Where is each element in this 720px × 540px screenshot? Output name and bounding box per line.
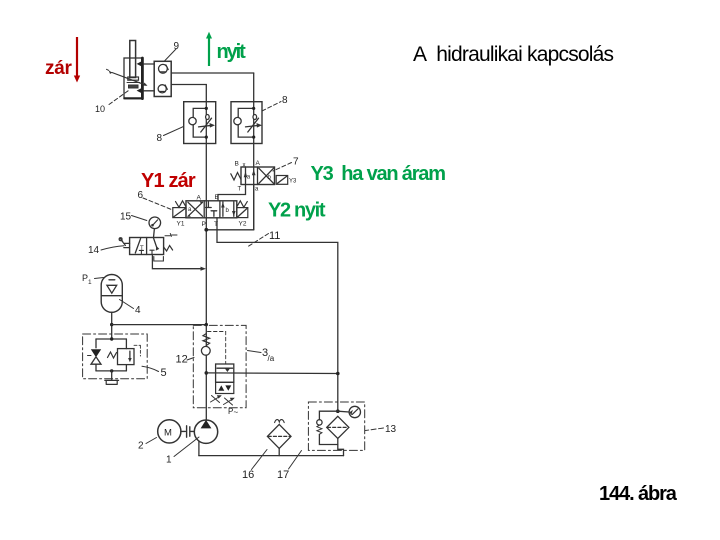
small figure numerals and port labels [82,41,397,481]
label 17 leader [289,451,302,470]
wire T return line 11 [217,218,338,411]
valve V14 right cell gauge path [154,238,158,249]
junction dot and drain wire [205,371,209,375]
wire block to right line (top port) [171,72,254,74]
svg-text:8: 8 [157,133,163,144]
valve V14 body [130,238,164,255]
label P1 leader [95,278,104,279]
gauge G15 [149,217,161,229]
cylinder C body [124,58,143,99]
gauge G15 stem [153,229,156,238]
svg-text:10: 10 [95,104,105,114]
valve U7 solenoid Y3 [276,176,288,185]
wire cylinder to block top [144,63,154,65]
relief valve spring [108,352,117,358]
check valve 12 ball [201,346,210,355]
label 8 right leader [262,102,281,112]
unit 13 dash-dot box [308,402,364,450]
svg-text:Y1 zár: Y1 zár [141,170,196,192]
relief unit 5 loop [96,338,126,340]
valve U7 (Y3) body [241,167,275,185]
filter 16 breather [275,420,285,423]
filter 16 diamond [267,424,291,448]
accumulator A4 stem [111,312,113,339]
wire left main line L1 [205,85,207,421]
relief unit 5 dash-dot box [83,334,148,379]
valve V14 left cell shutoff [135,239,140,254]
check valve in unit 5 [91,349,101,357]
unit 13 junction [336,409,340,413]
valve U6 spring left [176,201,186,208]
svg-text:16: 16 [242,469,254,481]
cylinder piston [128,77,139,80]
label 16 leader [252,450,268,470]
svg-text:Y1: Y1 [177,221,185,228]
flow control 8R drop [253,115,257,120]
bottom return line [199,455,344,457]
svg-text:14: 14 [88,245,100,256]
svg-text:P: P [202,221,206,228]
wire V14 to main line [152,255,202,269]
label 6 leader [143,198,172,210]
valve V14 left ports [124,243,130,247]
valve U6 middle cell closed symbols [206,202,212,208]
node dots 8R [252,107,255,110]
flow control 8R check circle [234,117,241,124]
unit 13 gauge [338,410,349,413]
svg-text:b: b [226,208,230,214]
svg-text:T: T [214,221,218,228]
wire accumulator to main [112,324,207,326]
pump P1 [194,420,217,443]
svg-text:T: T [238,187,242,193]
svg-text:T: T [140,246,144,252]
flow control valve 8 (left) box [184,102,216,144]
label 4 leader [120,300,134,309]
unit 13 filter diamond [327,416,349,438]
pilot dashed line 3/a [208,332,226,365]
valve V14 roller actuator [120,238,126,246]
wire right line L2 [253,73,255,230]
flow control 8L throttle arrow [199,125,213,127]
svg-text:A hidraulikai kapcsolás: A hidraulikai kapcsolás [413,43,614,66]
label 5 leader [142,366,159,371]
svg-text:Y2 nyit: Y2 nyit [268,200,326,222]
svg-text:A: A [197,195,202,202]
wire P junction to L2 [206,229,253,231]
throttle marks below 3/a [211,396,221,403]
check pair box in 3/a [216,382,234,393]
label 14 leader [101,246,124,250]
flow control 8R inner loop [238,108,254,137]
svg-text:zár: zár [45,58,72,79]
label 2 leader [146,438,157,444]
svg-text:11: 11 [269,230,280,242]
svg-text:6: 6 [138,190,144,201]
label 1 leader [174,437,199,457]
valve U7 left cell flow arrows [245,167,247,185]
svg-text:1: 1 [88,279,92,286]
valve U7 right cell crossed [259,168,274,183]
valve U6 solenoid Y2 [237,208,248,218]
label 12 leader [187,358,194,361]
svg-text:8: 8 [282,95,288,106]
svg-text:15: 15 [120,212,132,223]
svg-text:M: M [164,428,172,439]
valve U6 solenoid Y1 [173,208,186,218]
valve block U9 body [154,61,171,96]
svg-text:7: 7 [293,157,299,168]
svg-text:Y2: Y2 [239,221,247,228]
valve block U9 bottom port circle [158,85,166,93]
svg-text:/a: /a [268,354,275,363]
label 3/a leader [248,351,262,353]
flow control 8L inner loop [193,108,206,137]
relief valve in unit 5 [118,349,135,365]
unit 13 bypass branch [319,411,337,420]
valve U7 a-port wire down [253,185,255,230]
flow control 8L check circle [189,117,196,124]
svg-text:A: A [256,160,261,167]
label 15 leader [132,216,147,221]
label 11 leader [248,234,269,247]
unit 3/a dash-dot box [193,325,246,407]
pump drain [198,441,200,455]
svg-text:13: 13 [385,424,397,435]
flow control 8L drop [206,115,210,120]
svg-text:2: 2 [138,441,144,452]
flow control valve 8 (right) box [231,102,262,144]
svg-text:Y3: Y3 [289,179,297,185]
label 13 leader [366,428,384,431]
valve U6 left cell crossed arrows [188,202,203,216]
cylinder port arrow bottom [137,88,143,94]
accumulator A4 gas triangle [107,285,117,293]
cylinder C rod [130,41,136,78]
relief valve pilot bracket [134,345,140,356]
valve V14 detent top [165,234,177,237]
svg-text:Y3 ha van áram: Y3 ha van áram [311,163,446,185]
label 10 leader [109,91,129,105]
valve U7 T-port wire to valve U6 B [218,185,246,201]
svg-text:B: B [235,161,239,168]
label 8 left [164,127,184,136]
svg-text:4: 4 [135,305,141,316]
accumulator A4 body [101,275,122,313]
coupling [181,426,194,437]
annotation: red down arrow [74,37,80,83]
valve V14 spring right [164,246,173,252]
unit 13 outlet [338,439,344,456]
svg-text:12: 12 [176,354,188,366]
cylinder port arrow top [137,61,143,67]
wire cylinder to block bottom [144,90,154,92]
svg-text:1: 1 [166,455,172,466]
valve block U9 top port circle [159,64,168,73]
valve V14 drain bracket [154,257,164,262]
filter 16 stub [278,448,280,455]
svg-text:a: a [255,187,259,193]
lever arrow through piston [112,73,146,86]
annotation: green up arrow [206,32,212,66]
svg-text:B: B [215,194,219,201]
label 9 leader [164,49,176,62]
svg-text:x: x [243,163,246,169]
svg-text:a: a [188,207,192,213]
unit 5 tank symbol [111,371,113,381]
check valve 12 spring [203,334,210,346]
reducing valve in 3/a [216,364,234,382]
valve U7 spring left [231,173,241,181]
svg-text:nyit: nyit [217,41,247,63]
wire block to left line (bottom port) [171,84,206,86]
svg-text:9: 9 [174,41,180,52]
motor M2 [158,420,181,443]
valve U6 right cell arrows [222,202,224,216]
svg-text:5: 5 [161,367,167,379]
svg-text:a: a [247,175,251,181]
node dots 8L [205,107,208,110]
label 7 leader [273,163,292,172]
svg-text:17: 17 [277,469,289,481]
flow control 8R throttle arrow [246,125,260,127]
valve U6 spring right [237,201,247,208]
valve U6 (Y1/Y2) body [186,201,237,218]
svg-text:144. ábra: 144. ábra [599,483,678,505]
svg-text:~: ~ [234,408,239,417]
